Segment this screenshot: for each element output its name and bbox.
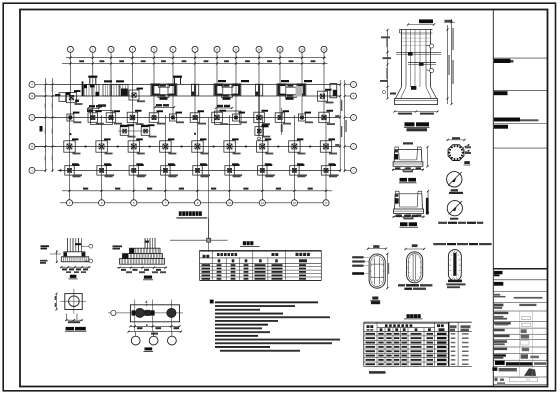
svg-text:B: B xyxy=(31,145,33,149)
svg-text:C: C xyxy=(353,169,355,173)
svg-text:11: 11 xyxy=(228,201,231,205)
svg-text:13: 13 xyxy=(261,201,265,205)
svg-text:12: 12 xyxy=(300,48,304,52)
svg-text:C: C xyxy=(353,145,355,149)
svg-text:11: 11 xyxy=(279,48,282,52)
svg-text:C: C xyxy=(353,83,355,87)
svg-text:17: 17 xyxy=(324,201,328,205)
svg-text:C: C xyxy=(353,116,355,120)
svg-text:C: C xyxy=(353,94,355,98)
svg-text:15: 15 xyxy=(293,201,297,205)
svg-text:10: 10 xyxy=(257,48,261,52)
svg-text:13: 13 xyxy=(322,48,326,52)
